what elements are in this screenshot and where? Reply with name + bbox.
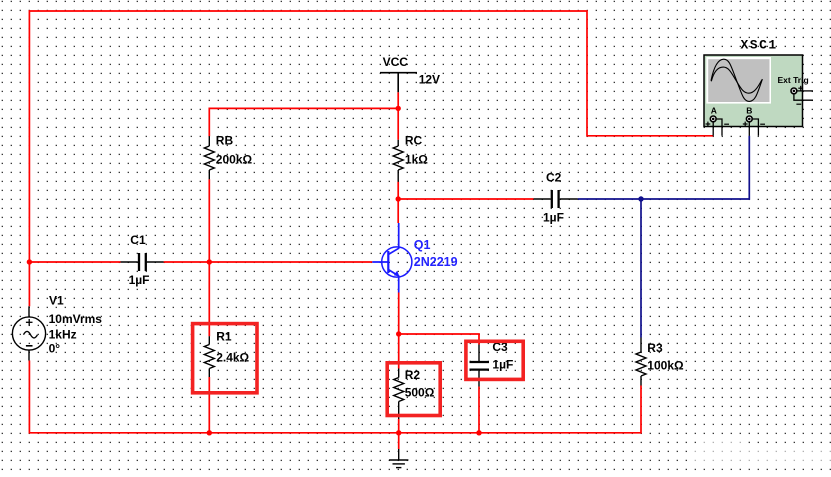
svg-text:1µF: 1µF bbox=[543, 211, 564, 225]
resistor R2 bbox=[394, 369, 404, 420]
wire: Q1 emitter red part down to emitter junction bbox=[398, 293, 400, 335]
pin A- bbox=[716, 119, 722, 136]
svg-text:RB: RB bbox=[216, 134, 234, 148]
wire: outer loop left vertical (top corner to V1 top) bbox=[29, 11, 713, 262]
ground bbox=[389, 449, 408, 468]
capacitor C1 bbox=[121, 253, 164, 271]
wire: R2 bottom to bottom rail bbox=[398, 419, 400, 433]
svg-text:V1: V1 bbox=[49, 294, 64, 308]
pin B+ bbox=[748, 122, 750, 136]
resistor RC bbox=[393, 140, 403, 182]
svg-text:Ext Trig: Ext Trig bbox=[778, 75, 809, 85]
wire: bottom rail bbox=[29, 361, 641, 433]
svg-text:12V: 12V bbox=[419, 73, 440, 87]
svg-text:C2: C2 bbox=[546, 171, 562, 185]
capacitor C2 bbox=[534, 190, 578, 208]
svg-text:500Ω: 500Ω bbox=[405, 386, 435, 400]
node: junction R1 / bottom rail bbox=[207, 430, 212, 435]
wire: RB bottom to junction and down to R1 bbox=[208, 179, 210, 336]
node: junction C3 / bottom rail bbox=[476, 430, 481, 435]
node: junction emitter / R2 / C3 bbox=[396, 331, 401, 336]
resistor R3 bbox=[636, 338, 646, 386]
svg-text:2N2219: 2N2219 bbox=[414, 255, 458, 269]
node: junction left wire / C1 bbox=[27, 259, 32, 264]
highlight box R1 bbox=[193, 324, 257, 393]
wire: blue net down to R3 bbox=[640, 199, 642, 338]
wire: RB branch horizontal from VCC junction bbox=[209, 108, 398, 136]
svg-text:A: A bbox=[711, 105, 717, 115]
wire: C3 bottom red to bottom rail bbox=[478, 387, 480, 433]
watermark bbox=[688, 439, 831, 468]
scope trace A bbox=[711, 59, 762, 101]
wire: left vertical to V1 bbox=[28, 262, 30, 306]
svg-text:RC: RC bbox=[405, 134, 423, 148]
svg-text:XSC1: XSC1 bbox=[741, 38, 778, 53]
wire: C1 to base bbox=[164, 261, 373, 263]
capacitor C3 bbox=[470, 345, 490, 387]
wire: collector node down to Q1 collector bbox=[397, 199, 399, 223]
svg-text:VCC: VCC bbox=[383, 55, 409, 69]
svg-text:R1: R1 bbox=[216, 330, 232, 344]
wire: C1 input horizontal bbox=[29, 261, 120, 263]
node: junction RC / C2 / collector bbox=[396, 196, 401, 201]
oscilloscope XSC1 bbox=[704, 55, 813, 136]
power VCC bbox=[380, 73, 417, 93]
svg-text:Q1: Q1 bbox=[414, 238, 431, 252]
svg-text:10mVrms: 10mVrms bbox=[49, 312, 103, 326]
highlight box C3 bbox=[466, 341, 523, 379]
transistor Q1 bbox=[372, 223, 412, 293]
svg-text:1kHz: 1kHz bbox=[49, 328, 77, 342]
wire: emitter junction down to R2 bbox=[398, 334, 400, 369]
wire: blue net C2 to scope B (horizontal) bbox=[578, 136, 750, 199]
svg-text:1µF: 1µF bbox=[129, 273, 150, 287]
pin Ext- bbox=[794, 94, 813, 100]
wire: bottom rail junction down to ground bbox=[398, 433, 400, 449]
resistor RB bbox=[204, 136, 214, 179]
wire: VCC junction down to RC bbox=[397, 108, 399, 139]
scope trace B bbox=[711, 67, 762, 93]
wire: emitter junction to C3 bbox=[399, 334, 479, 345]
pin A+ bbox=[712, 122, 714, 136]
svg-text:1µF: 1µF bbox=[492, 358, 513, 372]
svg-text:C1: C1 bbox=[130, 233, 146, 247]
svg-text:100kΩ: 100kΩ bbox=[647, 359, 684, 373]
node: junction R2-ground / bottom rail bbox=[396, 430, 401, 435]
svg-text:2.4kΩ: 2.4kΩ bbox=[216, 351, 249, 365]
wire: RC bottom to collector node bbox=[397, 182, 399, 199]
wire: collector node to C2 bbox=[398, 198, 533, 200]
svg-text:B: B bbox=[746, 105, 752, 115]
svg-text:200kΩ: 200kΩ bbox=[216, 152, 253, 166]
pin Ext+ bbox=[797, 90, 813, 92]
svg-text:1kΩ: 1kΩ bbox=[405, 152, 428, 166]
svg-text:R3: R3 bbox=[647, 341, 663, 355]
source V1 bbox=[12, 306, 45, 360]
svg-text:R2: R2 bbox=[405, 368, 421, 382]
terminal B bbox=[746, 116, 752, 122]
svg-text:0°: 0° bbox=[49, 342, 61, 356]
pin B- bbox=[752, 119, 758, 136]
node: junction VCC / RB / RC bbox=[396, 106, 401, 111]
wire: VCC stem red part down to junction bbox=[397, 92, 399, 108]
resistor R1 bbox=[204, 336, 214, 377]
highlight box R2 bbox=[387, 363, 440, 416]
node: blue junction C2 / R3 / scope bbox=[638, 196, 643, 201]
node: junction RB branch / base wire bbox=[207, 259, 212, 264]
terminal A bbox=[710, 116, 716, 122]
wire: R1 bottom to bottom rail bbox=[208, 377, 210, 433]
